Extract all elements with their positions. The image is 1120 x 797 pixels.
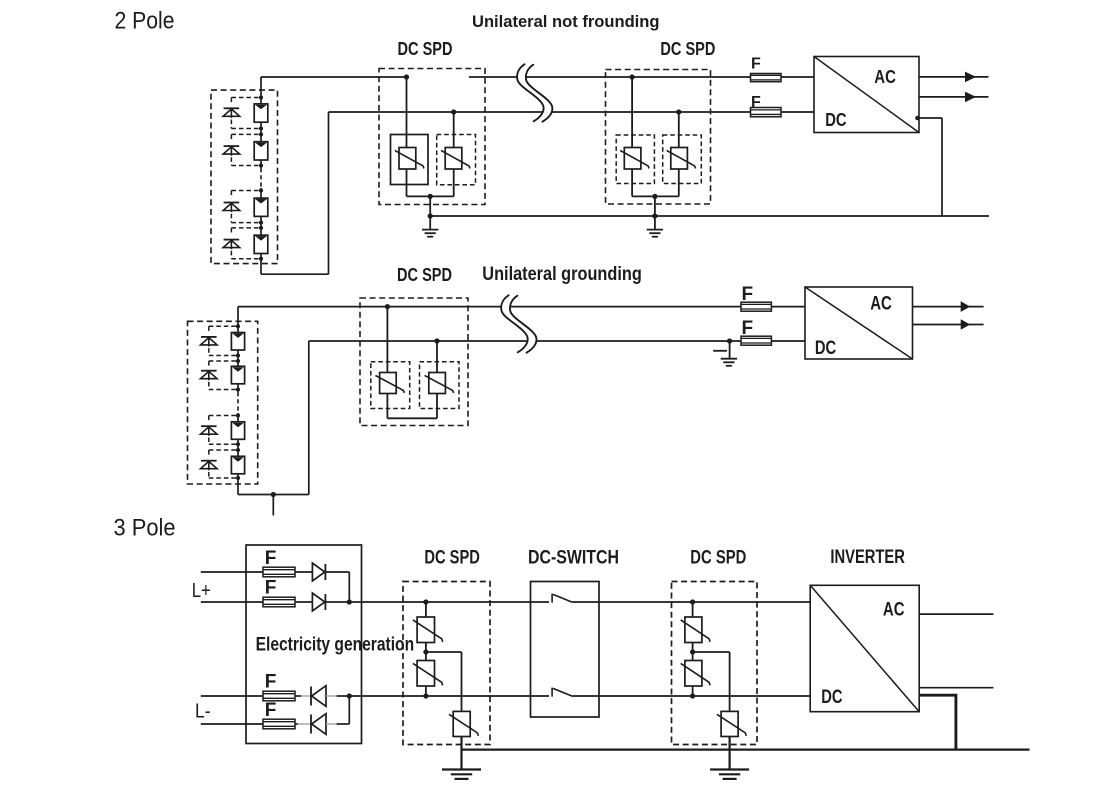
svg-text:3 Pole: 3 Pole — [114, 515, 176, 542]
svg-text:F: F — [265, 672, 277, 693]
svg-text:Unilateral not frounding: Unilateral not frounding — [472, 12, 660, 31]
svg-text:F: F — [265, 700, 277, 721]
svg-text:DC-SWITCH: DC-SWITCH — [528, 548, 619, 569]
svg-text:DC: DC — [821, 687, 843, 708]
svg-text:DC SPD: DC SPD — [397, 264, 452, 285]
svg-text:2 Pole: 2 Pole — [115, 8, 175, 35]
svg-text:F: F — [265, 548, 277, 569]
svg-text:L-: L- — [195, 701, 211, 723]
svg-text:INVERTER: INVERTER — [830, 547, 905, 568]
svg-text:AC: AC — [870, 293, 892, 314]
svg-text:DC SPD: DC SPD — [424, 548, 480, 569]
svg-text:L+: L+ — [192, 580, 211, 602]
svg-text:F: F — [265, 578, 277, 599]
svg-text:DC SPD: DC SPD — [398, 38, 453, 59]
svg-text:DC: DC — [825, 110, 846, 130]
svg-text:DC SPD: DC SPD — [660, 38, 715, 59]
svg-text:F: F — [751, 56, 761, 73]
svg-text:DC: DC — [815, 338, 837, 359]
svg-text:DC SPD: DC SPD — [690, 548, 746, 569]
svg-text:Unilateral grounding: Unilateral grounding — [482, 264, 642, 285]
svg-text:AC: AC — [874, 67, 896, 87]
svg-text:AC: AC — [883, 600, 905, 621]
svg-text:Electricity generation: Electricity generation — [256, 635, 415, 656]
